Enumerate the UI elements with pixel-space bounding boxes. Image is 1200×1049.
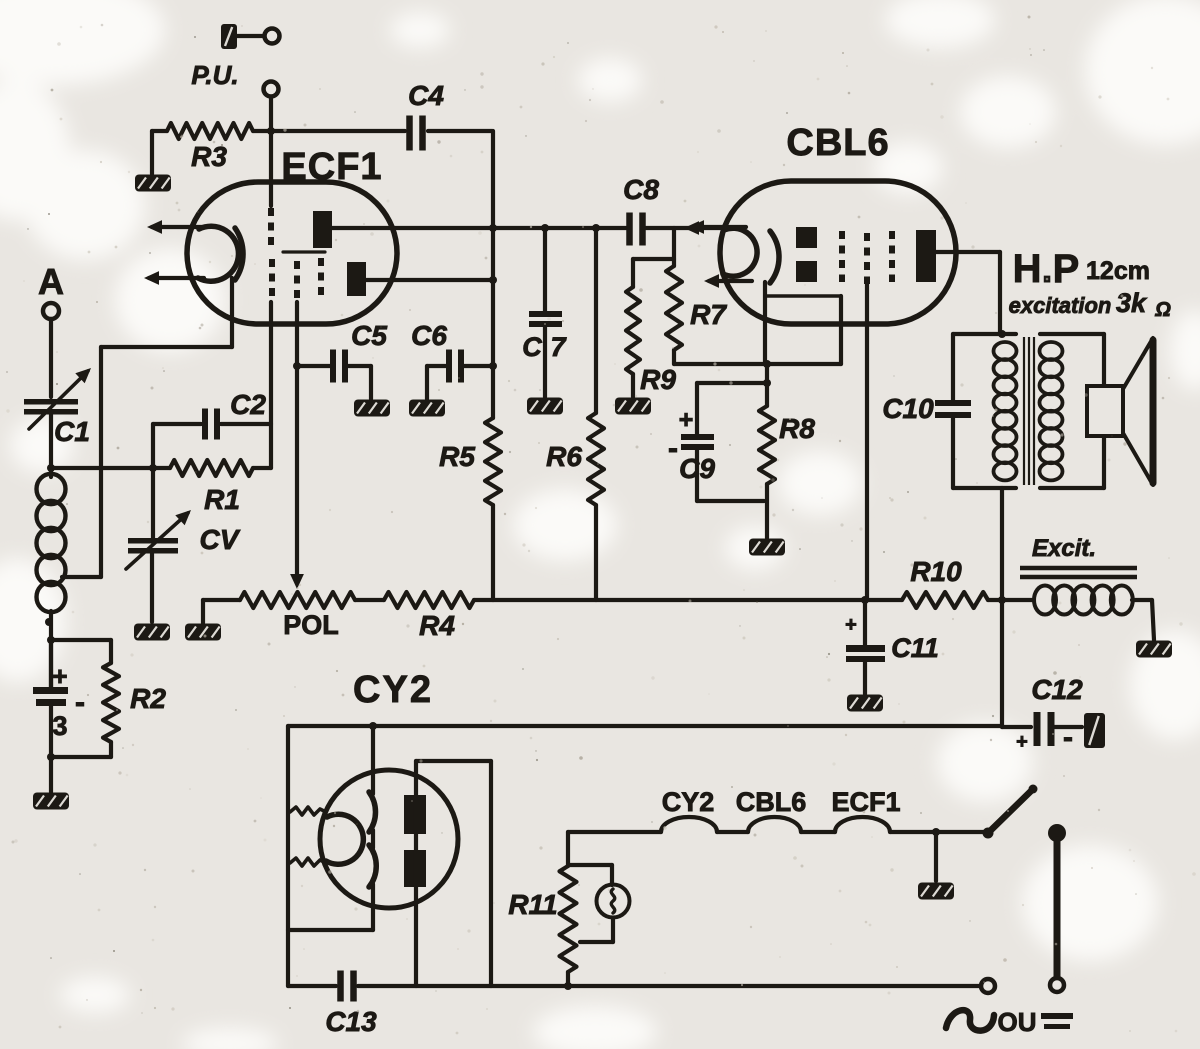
svg-text:C10: C10 <box>882 393 934 424</box>
svg-text:CBL6: CBL6 <box>786 122 889 164</box>
svg-text:-: - <box>1063 721 1073 754</box>
svg-text:-: - <box>668 432 678 465</box>
svg-text:R5: R5 <box>439 441 475 472</box>
svg-text:CY2: CY2 <box>353 669 433 711</box>
svg-text:+: + <box>52 661 67 691</box>
svg-text:R2: R2 <box>130 683 166 714</box>
svg-text:C6: C6 <box>411 320 447 351</box>
svg-text:C5: C5 <box>351 320 387 351</box>
svg-text:C9: C9 <box>679 453 715 484</box>
svg-text:C11: C11 <box>891 633 939 663</box>
svg-text:CY2: CY2 <box>662 787 715 817</box>
svg-text:OU: OU <box>998 1007 1037 1037</box>
svg-text:R6: R6 <box>546 441 582 472</box>
svg-text:C8: C8 <box>623 174 659 205</box>
svg-text:R8: R8 <box>779 413 815 444</box>
svg-text:7: 7 <box>550 332 567 362</box>
svg-text:3: 3 <box>52 711 67 741</box>
svg-text:Ω: Ω <box>1154 299 1171 321</box>
svg-text:C1: C1 <box>54 416 90 447</box>
svg-text:A: A <box>38 261 64 302</box>
svg-text:Excit.: Excit. <box>1032 535 1096 562</box>
svg-text:R4: R4 <box>419 610 455 641</box>
svg-text:R7: R7 <box>690 299 727 330</box>
svg-text:3k: 3k <box>1116 288 1148 318</box>
svg-text:C: C <box>522 332 542 362</box>
svg-text:+: + <box>845 614 857 636</box>
svg-text:C13: C13 <box>325 1006 377 1037</box>
svg-text:-: - <box>75 686 85 719</box>
svg-text:C2: C2 <box>230 389 266 420</box>
svg-text:+: + <box>1016 731 1028 753</box>
svg-text:POL: POL <box>283 610 339 640</box>
svg-text:12cm: 12cm <box>1086 257 1150 285</box>
svg-text:CBL6: CBL6 <box>736 787 807 817</box>
svg-text:ECF1: ECF1 <box>281 146 382 188</box>
svg-text:P.U.: P.U. <box>191 60 238 90</box>
svg-text:+: + <box>679 406 694 434</box>
svg-text:H.P: H.P <box>1013 247 1080 291</box>
svg-text:CV: CV <box>200 524 241 555</box>
svg-text:R11: R11 <box>508 889 557 920</box>
svg-text:R10: R10 <box>910 556 962 587</box>
svg-text:R9: R9 <box>640 364 676 395</box>
svg-text:excitation: excitation <box>1009 293 1112 318</box>
svg-text:C4: C4 <box>408 80 444 111</box>
svg-text:R1: R1 <box>204 484 240 515</box>
svg-text:C12: C12 <box>1031 674 1083 705</box>
svg-text:ECF1: ECF1 <box>831 787 900 817</box>
